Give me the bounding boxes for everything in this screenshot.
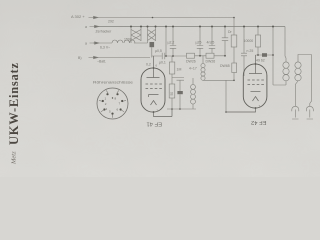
resistor box DW26 a (187, 53, 195, 58)
svg-text:Röhrenanschlüsse: Röhrenanschlüsse (93, 80, 134, 85)
feed line 6.3V (93, 42, 148, 44)
grid cap tube2 x244 (241, 27, 247, 77)
tube V2 grid 1 (248, 79, 264, 81)
tube V2 grid 2 (248, 84, 264, 86)
cathode resistor 50 (169, 84, 175, 98)
capacitor C at x200 (197, 27, 203, 56)
arrow A302 (89, 16, 99, 18)
capacitor below choke (dark) (150, 42, 155, 47)
svg-text:DW26: DW26 (206, 60, 216, 64)
capacitor C at x173 (170, 27, 176, 57)
resistor 1M4 (171, 56, 173, 62)
terminal b pin (307, 110, 313, 120)
tube V2 anode (249, 55, 262, 74)
svg-text:1M: 1M (177, 68, 182, 72)
svg-text:10000: 10000 (244, 39, 254, 43)
resistor box DW26 b (206, 53, 214, 58)
svg-text:DW26: DW26 (186, 60, 196, 64)
feed line -Batt (93, 57, 150, 59)
resistor 2 on x234 (232, 63, 237, 73)
coil x203 (202, 56, 204, 64)
resistor Dr on A302 drop (233, 18, 235, 64)
tube V2 EF42 (243, 64, 267, 108)
IF transformer primary (285, 81, 287, 85)
sub rail (167, 108, 196, 110)
secondary top wire (298, 55, 312, 107)
svg-text:EF 41: EF 41 (147, 121, 162, 127)
svg-text:0,2: 0,2 (146, 63, 151, 67)
svg-text:−Batt.: −Batt. (97, 60, 106, 64)
svg-text:UKW-Einsatz: UKW-Einsatz (7, 63, 21, 145)
svg-text:a: a (85, 42, 87, 46)
svg-text:a: a (85, 25, 87, 29)
svg-text:6,3 V~: 6,3 V~ (100, 46, 110, 50)
capacitor C at x225 (222, 27, 228, 56)
svg-text:49 62: 49 62 (256, 59, 265, 63)
socket pin ticks (99, 90, 126, 117)
wire x273 anode feed (273, 27, 286, 86)
svg-text:4÷17: 4÷17 (189, 67, 197, 71)
terminal a pin (292, 110, 298, 120)
tube V1 grid 1 (146, 83, 162, 85)
anode wire tube1 y56 (152, 55, 182, 57)
svg-text:EF 42: EF 42 (251, 119, 266, 125)
grid band wire y55.5 (182, 55, 226, 57)
svg-text:1500: 1500 (124, 38, 132, 42)
tube V2 envelope (243, 64, 267, 108)
tube V2 cathode (251, 91, 261, 93)
IF transformer secondary (295, 62, 301, 68)
capacitor C at x212 (209, 27, 215, 54)
capacitor below 1M4 (172, 78, 184, 92)
svg-text:B): B) (78, 56, 82, 60)
terminal a jack (292, 106, 299, 111)
svg-text:µ2,2: µ2,2 (168, 41, 175, 45)
svg-text:50: 50 (170, 92, 174, 96)
svg-text:A 302 +: A 302 + (71, 14, 85, 19)
svg-text:4n25: 4n25 (207, 41, 215, 45)
heater choke X left (131, 27, 141, 44)
svg-text:DW65: DW65 (220, 64, 230, 68)
oscillator coil (192, 78, 194, 109)
svg-text:µ25: µ25 (196, 41, 202, 45)
bus corner down to coil (285, 27, 286, 63)
bus line (Zerhacker) (94, 26, 285, 28)
feed line A302+ (93, 17, 234, 19)
tube V1 heater (151, 101, 157, 106)
arrow -Batt (89, 56, 99, 58)
resistor 10000 on x258 drop (257, 27, 259, 56)
series capacitor plates (162, 53, 165, 59)
socket pins (102, 93, 124, 115)
tube V1 anode (147, 56, 160, 78)
band bottom wire (203, 80, 234, 112)
terminal a wire (295, 81, 298, 106)
bus drop x166 (165, 27, 167, 57)
tube V2 pin lead (226, 108, 256, 112)
svg-text:Zerhacker: Zerhacker (96, 30, 113, 34)
screen wire y55 tube2 (256, 54, 274, 56)
tube V2 heater (253, 97, 259, 102)
tube V1 EF41 (141, 68, 165, 112)
terminal b jack (306, 106, 313, 111)
socket pin numbers (105, 97, 121, 114)
svg-text:292: 292 (108, 20, 114, 24)
tube V1 cathode (149, 95, 159, 98)
tube socket circle (97, 88, 128, 119)
bus junction dots (130, 17, 274, 113)
tube V1 pin lead (154, 109, 173, 117)
svg-text:µ0,5: µ0,5 (155, 49, 162, 53)
svg-text:Metz: Metz (11, 151, 18, 165)
heater choke X right (148, 27, 156, 44)
tube V1 envelope (141, 68, 165, 112)
cathode capacitor dark (177, 91, 182, 94)
svg-text:n 25: n 25 (247, 49, 254, 53)
arrow 6.3V (90, 42, 100, 44)
choke humps 6.3V (112, 40, 135, 43)
arrow bus (90, 25, 100, 27)
tube V1 grid 2 (146, 88, 162, 90)
paper texture (0, 0, 1, 1)
svg-text:µ0,1: µ0,1 (159, 61, 166, 65)
